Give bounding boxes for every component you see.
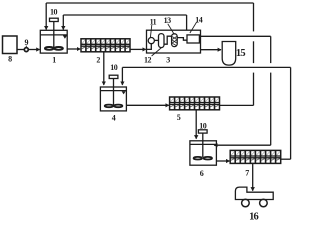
conveyor 2 [81, 39, 130, 52]
wire rail C drop toward tank 6 (with crossing gap) [270, 36, 272, 145]
wire rail A horizontal [46, 2, 253, 4]
wire rail D horizontal [122, 66, 290, 68]
svg-text:11: 11 [150, 17, 157, 26]
wire recycle rail A into tank 1 (arrow down) [45, 3, 47, 30]
wire conveyor 7 down to truck 16 with arrow [252, 163, 254, 190]
svg-text:13: 13 [164, 16, 172, 25]
wire tank 6 to conveyor 7 with arrow [216, 160, 229, 162]
wire rail B drop into unit 3 [186, 15, 188, 30]
svg-text:10: 10 [199, 122, 207, 131]
svg-text:6: 6 [200, 169, 204, 178]
unit 3 enclosure [147, 30, 201, 53]
wire column 13 to box 14 [177, 38, 187, 41]
conveyor 5 [170, 97, 220, 110]
coil 12 [159, 34, 165, 48]
wire conveyor 7 output to rail D [281, 158, 291, 160]
wire rail D right drop [290, 67, 292, 159]
wire rail C into tank 6 right side with arrow [214, 144, 271, 146]
wire conveyor 5 output to rail A [220, 104, 254, 106]
pump 11 [148, 38, 154, 44]
svg-text:7: 7 [245, 169, 249, 178]
wire 8 to valve 9 [17, 49, 24, 51]
wire conveyor 2 to unit 3 with arrow [130, 48, 146, 50]
wire rail C: unit 3 to right drop [199, 35, 270, 37]
conveyor 7 [230, 150, 281, 163]
vessel 15 [222, 42, 236, 66]
tank 1 [40, 22, 67, 54]
wire rail B horizontal [63, 14, 186, 16]
svg-text:10: 10 [110, 63, 118, 72]
wire tank 4 to conveyor 5 with arrow [126, 104, 168, 106]
svg-text:5: 5 [177, 113, 181, 122]
tank 6 [190, 133, 217, 165]
wire tank 1 to conveyor 2 with arrow [67, 48, 80, 50]
label 11 with leader [150, 17, 157, 37]
motor 10 of tank 6 [198, 130, 207, 133]
svg-text:15: 15 [236, 48, 245, 59]
label 14 with leader [190, 15, 203, 33]
motor 10 of tank 1 [50, 18, 59, 21]
label 9 [25, 38, 29, 47]
svg-text:8: 8 [8, 54, 12, 63]
wire rail D into tank 4 with arrow [121, 67, 123, 85]
wire valve 9 to tank 1 with arrow [29, 49, 40, 51]
svg-text:2: 2 [96, 55, 100, 64]
svg-text:1: 1 [52, 55, 56, 64]
wire conveyor 5 down to tank 6 with arrow [195, 110, 197, 139]
svg-text:10: 10 [50, 7, 58, 16]
valve 9 [24, 48, 28, 52]
column 13 [172, 34, 178, 47]
wire rail A drop at right (with crossing gaps) [253, 3, 255, 105]
wire recycle rail B into tank 1 (arrow down) [62, 15, 64, 30]
svg-text:3: 3 [166, 56, 170, 65]
svg-text:12: 12 [144, 56, 152, 65]
box 14 [187, 35, 199, 43]
tank 4 [100, 78, 126, 111]
label 13 with leader [164, 16, 174, 33]
svg-text:4: 4 [112, 113, 116, 122]
svg-text:16: 16 [249, 212, 258, 221]
motor 10 of tank 4 [109, 75, 118, 78]
truck 16 [235, 187, 273, 207]
wire unit 3 to vessel 15 with arrow [201, 49, 222, 51]
wire coil 12 to column 13 [164, 36, 172, 44]
wire conveyor 2 down to tank 4 with arrow [103, 52, 105, 85]
wire inlet stub inside unit 3 [147, 44, 152, 49]
feed box 8 [3, 36, 18, 54]
label 12 with leader [144, 48, 161, 65]
wire 11 to coil 12 [154, 39, 158, 41]
